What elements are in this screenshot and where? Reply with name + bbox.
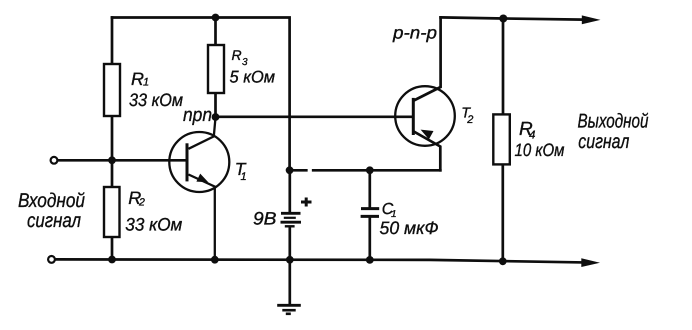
svg-text:2: 2 (138, 197, 145, 209)
svg-text:Выходной: Выходной (578, 111, 649, 133)
svg-text:1: 1 (143, 77, 149, 89)
svg-text:3: 3 (242, 57, 248, 68)
svg-text:сигнал: сигнал (27, 210, 81, 232)
svg-text:p-n-p: p-n-p (392, 22, 437, 42)
svg-text:сигнал: сигнал (578, 131, 629, 153)
svg-text:33 кОм: 33 кОм (129, 90, 183, 110)
svg-text:1: 1 (241, 171, 247, 183)
svg-text:50 мкФ: 50 мкФ (380, 218, 439, 238)
svg-text:10 кОм: 10 кОм (515, 140, 565, 160)
svg-text:R: R (232, 47, 242, 63)
svg-text:33 кОм: 33 кОм (125, 215, 182, 235)
svg-text:9В: 9В (253, 209, 277, 229)
svg-text:Входной: Входной (18, 190, 85, 212)
svg-text:5 кОм: 5 кОм (230, 68, 276, 87)
svg-text:npn: npn (183, 105, 212, 126)
svg-text:2: 2 (466, 114, 473, 126)
